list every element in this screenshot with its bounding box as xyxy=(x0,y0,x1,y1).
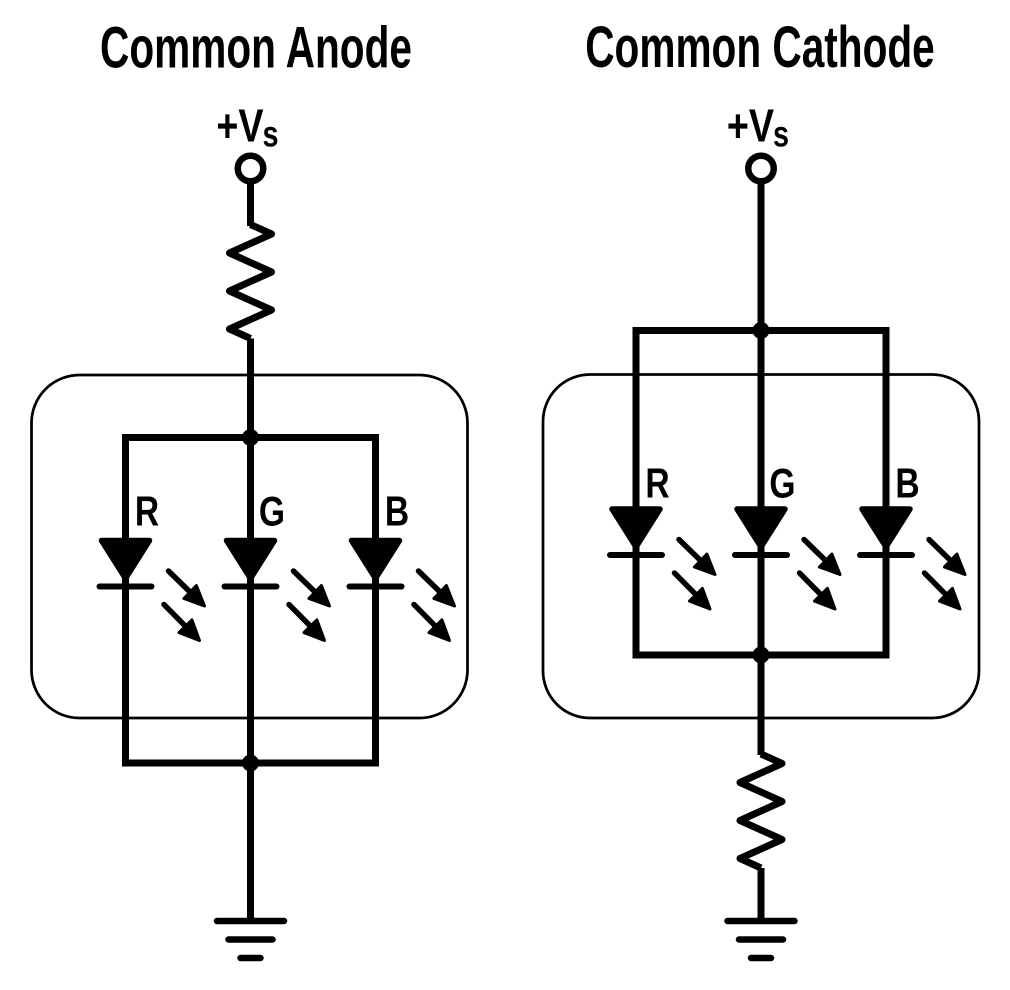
node +Vs (right supply label) xyxy=(727,100,789,155)
LED R (right): triangle anode-down + cathode bar xyxy=(610,509,662,555)
terminal +Vs (right), open circle xyxy=(748,156,774,182)
label G (right LED) xyxy=(769,461,795,507)
svg-text:Common Cathode: Common Cathode xyxy=(585,15,935,80)
svg-text:G: G xyxy=(259,489,285,535)
RGB LED package outline (left) xyxy=(32,375,468,718)
wire: resistor R1 to common-anode junction (G branch vertical) xyxy=(247,339,254,764)
LED G light arrows (right) xyxy=(800,540,841,610)
wire: anode bus left half + LED R branch + cathode bus left half (right circuit) xyxy=(636,331,761,656)
svg-text:+V: +V xyxy=(727,100,774,151)
LED B (right): triangle anode-down + cathode bar xyxy=(860,509,912,555)
svg-text:Common Anode: Common Anode xyxy=(100,15,412,80)
junction: common cathode node (dot, right) xyxy=(753,647,770,664)
title: Common Cathode xyxy=(585,15,935,80)
LED R light arrows (right) xyxy=(675,540,716,610)
wire: anode bus left half + LED R branch + cathode-return left half xyxy=(126,438,251,764)
wire: resistor R2 to ground (right) xyxy=(758,868,765,921)
wire: bottom junction to ground (left) xyxy=(247,763,254,921)
svg-text:s: s xyxy=(773,114,789,155)
LED B (left): triangle anode-down + cathode bar xyxy=(350,541,402,587)
label B (right LED) xyxy=(895,461,919,507)
junction: supply node at top bus (dot, right) xyxy=(753,322,770,339)
LED R (left): triangle anode-down + cathode bar xyxy=(100,541,152,587)
svg-text:+V: +V xyxy=(216,100,263,151)
label R (right LED) xyxy=(645,461,669,507)
svg-text:G: G xyxy=(769,461,795,507)
svg-text:B: B xyxy=(385,489,409,535)
LED G light arrows (left) xyxy=(289,571,330,641)
wire: common cathode junction to resistor R2 xyxy=(758,655,765,755)
junction: output node at bottom bus (dot) xyxy=(242,755,259,772)
label G (left LED) xyxy=(259,489,285,535)
terminal +Vs (left), open circle xyxy=(238,156,264,182)
wire: center LED G branch (right circuit) xyxy=(758,331,765,656)
svg-text:s: s xyxy=(262,114,278,155)
svg-text:R: R xyxy=(645,461,669,507)
wire: +Vs terminal to common anode bus (right) xyxy=(758,181,765,331)
LED B light arrows (left) xyxy=(414,571,455,641)
label R (left LED) xyxy=(135,489,159,535)
wire: +Vs terminal to resistor R1 xyxy=(247,181,254,226)
label B (left LED) xyxy=(385,489,409,535)
LED B light arrows (right) xyxy=(925,540,966,610)
LED G (left): triangle anode-down + cathode bar xyxy=(225,541,277,587)
svg-text:B: B xyxy=(895,461,919,507)
resistor R2 (current limiting, right) xyxy=(740,754,782,868)
node +Vs (left supply label) xyxy=(216,100,278,155)
RGB LED package outline (right) xyxy=(543,375,979,719)
wire: anode bus right half + LED B branch + cathode bus right half (right circuit) xyxy=(761,331,886,656)
svg-text:R: R xyxy=(135,489,159,535)
LED G (right): triangle anode-down + cathode bar xyxy=(735,509,787,555)
wire: anode bus right half + LED B branch + cathode-return right half xyxy=(251,438,376,764)
resistor R1 (current limiting, left) xyxy=(230,225,272,339)
ground symbol (right) xyxy=(728,921,795,958)
ground symbol (left) xyxy=(217,921,284,958)
LED R light arrows (left) xyxy=(164,571,205,641)
title: Common Anode xyxy=(100,15,412,80)
junction: common anode node (dot) xyxy=(242,429,259,446)
